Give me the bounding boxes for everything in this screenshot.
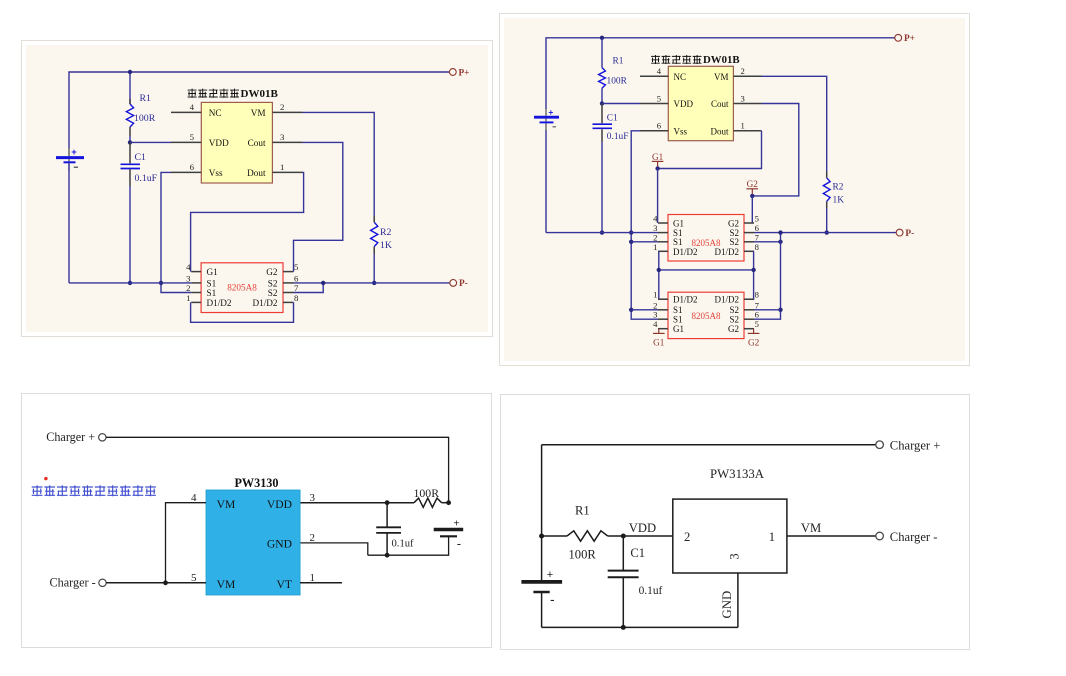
svg-text:P+: P+ (459, 68, 470, 78)
svg-text:VM: VM (251, 108, 266, 118)
svg-text:6: 6 (755, 310, 760, 320)
wire battery minus down to rail (68, 163, 70, 283)
pin 2 stub U5 (658, 309, 668, 311)
junction dot VDD node 2 (600, 101, 604, 105)
svg-text:3: 3 (280, 132, 285, 142)
wire G1 node to pin4a (657, 169, 659, 224)
wire pin2b link (631, 309, 658, 311)
transistor U6 PW3130 body (206, 490, 300, 595)
svg-text:0.1uf: 0.1uf (639, 585, 663, 597)
junction dot R2 rail panel2 (825, 230, 829, 234)
svg-text:3: 3 (186, 273, 191, 283)
svg-text:1: 1 (310, 572, 316, 584)
node anno red dot (44, 477, 47, 480)
junction dot C1 rail (128, 281, 132, 285)
svg-text:Vss: Vss (209, 168, 223, 178)
svg-text:1: 1 (741, 121, 745, 131)
junction dot pin7 rail (321, 281, 325, 285)
junction dot top rail 2 (600, 36, 604, 40)
svg-text:D1/D2: D1/D2 (715, 295, 740, 305)
wire battery B4 bottom (541, 592, 543, 627)
svg-text:S2: S2 (729, 315, 739, 325)
svg-text:S1: S1 (207, 288, 217, 298)
svg-text:P-: P- (905, 229, 914, 239)
wire VM loop (166, 503, 207, 583)
svg-text:G1: G1 (673, 218, 684, 228)
pin 6 stub U4 (744, 232, 754, 234)
svg-text:2: 2 (310, 532, 316, 544)
svg-text:8205A8: 8205A8 (227, 283, 257, 293)
pin 1 D1D2 stub (191, 301, 201, 303)
junction dot VDD node (128, 140, 132, 144)
svg-text:S1: S1 (673, 237, 683, 247)
svg-text:C1: C1 (630, 546, 645, 560)
svg-text:5: 5 (755, 319, 759, 329)
svg-text:Cout: Cout (711, 99, 729, 109)
svg-text:1: 1 (280, 162, 284, 172)
pin stubs of R1 (129, 99, 131, 136)
wire pin2a link (631, 241, 658, 243)
svg-text:0.1uf: 0.1uf (392, 538, 415, 549)
panel 3 frame (22, 394, 492, 648)
svg-text:DW01B: DW01B (703, 54, 740, 66)
svg-text:+: + (548, 107, 553, 117)
svg-text:C1: C1 (135, 152, 147, 163)
junction dot Vss rail crossing (159, 281, 163, 285)
wire Dout to G1 pin4 (191, 172, 304, 271)
svg-text:G2: G2 (266, 267, 278, 277)
svg-text:-: - (550, 591, 555, 607)
net label G1 upper (652, 152, 664, 167)
battery B1 (56, 147, 84, 171)
junction dot right vertical rail (778, 230, 782, 234)
svg-text:R2: R2 (380, 227, 392, 238)
panel 4 frame (501, 395, 970, 650)
label chinese annotation (32, 485, 156, 496)
junction dot C1 rail 2 (600, 230, 604, 234)
resistor R2 (371, 222, 378, 246)
svg-text:2: 2 (741, 66, 745, 76)
wire battery 2 down (545, 130, 547, 233)
battery B2 (534, 107, 559, 130)
svg-text:100R: 100R (607, 77, 628, 87)
svg-text:R1: R1 (613, 57, 624, 67)
svg-text:G2: G2 (748, 337, 760, 347)
svg-text:6: 6 (294, 273, 299, 283)
label U1 title chinese 无锡平芯微 (188, 89, 239, 98)
junction dot cap bottom (385, 553, 390, 558)
svg-text:1: 1 (653, 290, 657, 300)
transistor U7 PW3133A body (673, 499, 787, 573)
svg-text:G2: G2 (728, 324, 739, 334)
node Charger plus terminal 4 (876, 441, 884, 449)
svg-text:5: 5 (657, 93, 661, 103)
net label G2 lower (748, 329, 760, 348)
svg-text:VT: VT (277, 578, 292, 591)
svg-text:4: 4 (657, 66, 662, 76)
svg-text:100R: 100R (414, 486, 440, 500)
pin 2 VM stub 2 (733, 75, 761, 77)
svg-text:GND: GND (267, 537, 292, 550)
svg-text:2: 2 (684, 530, 690, 544)
wire VM out (787, 535, 876, 537)
svg-text:G1: G1 (207, 267, 219, 277)
svg-text:5: 5 (191, 572, 197, 584)
panel 1 schematic background (26, 45, 488, 332)
svg-text:1: 1 (186, 293, 190, 303)
svg-text:NC: NC (674, 72, 687, 82)
wire pin7b link (754, 309, 781, 311)
wire top rail 2 (546, 38, 895, 109)
wire B- rail (69, 282, 191, 284)
panel 1 frame (22, 41, 493, 337)
net label G1 lower (653, 329, 665, 348)
wire Vss vertical 2 (631, 131, 658, 319)
wire D1D2 bottom U (191, 302, 294, 322)
junction dot Vss pin2b (629, 308, 633, 312)
svg-text:S1: S1 (673, 315, 683, 325)
svg-text:G1: G1 (653, 337, 665, 347)
junction dot battery top (446, 500, 451, 505)
net label G2 upper (747, 179, 759, 194)
svg-text:1: 1 (653, 242, 657, 252)
junction dot C1 top 4 (621, 534, 626, 539)
svg-text:3: 3 (728, 553, 742, 559)
wire VDD row (300, 502, 414, 504)
pin 6 Vss stub (171, 171, 201, 173)
pin 7 stub U5 (744, 309, 754, 311)
node P- terminal 2 (896, 229, 903, 236)
junction dot Vss rail 2 (629, 230, 633, 234)
svg-text:100R: 100R (569, 548, 597, 562)
resistor R1 panel2 (599, 68, 606, 89)
svg-text:R2: R2 (833, 182, 844, 192)
svg-text:1K: 1K (833, 196, 845, 206)
pin 3 Cout stub (272, 141, 302, 143)
svg-text:G1: G1 (652, 152, 664, 162)
battery B3 (434, 519, 464, 552)
node P+ terminal 2 (895, 34, 902, 41)
svg-text:7: 7 (755, 232, 760, 242)
svg-text:+: + (547, 569, 553, 581)
pin 5 VDD stub (171, 141, 201, 143)
svg-text:VM: VM (217, 578, 236, 591)
pin 5 stub U4 (744, 222, 754, 224)
svg-text:1K: 1K (380, 240, 392, 251)
wire R1 to VDD node 2 (601, 88, 603, 103)
wire VDD node to chip (130, 141, 171, 143)
wire R1 to VDD node (129, 136, 131, 142)
svg-text:DW01B: DW01B (241, 88, 279, 100)
svg-text:8205A8: 8205A8 (692, 311, 721, 321)
wire VT stub (300, 582, 342, 584)
pin 7 stub U4 (744, 241, 754, 243)
pin 4 stub U4 (658, 222, 668, 224)
junction dot G1 node (655, 166, 659, 170)
svg-text:4: 4 (191, 492, 197, 504)
pin stubs of R2 (373, 216, 375, 254)
pin 3 S1 stub (191, 282, 201, 284)
pin 8 stub U4 (744, 250, 754, 252)
pin 5 stub U5 (744, 328, 754, 330)
transistor U5 8205A8 body (668, 292, 744, 338)
svg-text:3: 3 (310, 492, 316, 504)
svg-text:5: 5 (755, 214, 759, 224)
wire Cout down to G2 node (752, 104, 799, 196)
svg-text:Charger +: Charger + (890, 439, 941, 453)
pin 3 stub U4 (658, 232, 668, 234)
wire R1 to chip (608, 535, 673, 537)
wire rail to P- (294, 282, 450, 284)
panel 2 schematic background (504, 18, 965, 361)
wire R1 left link (542, 535, 567, 537)
svg-text:D1/D2: D1/D2 (673, 295, 698, 305)
wire pin7a link (754, 241, 781, 243)
pin 4 stub U5 (658, 328, 668, 330)
svg-text:100R: 100R (134, 113, 156, 124)
wire R1 branch 2 (601, 38, 603, 68)
svg-text:VM: VM (801, 521, 821, 535)
node Charger minus terminal 4 (876, 532, 884, 540)
wire 100R to battery node (442, 502, 449, 504)
svg-text:0.1uF: 0.1uF (135, 173, 158, 184)
wire VM to R2 (303, 112, 375, 216)
wire battery B3 bottom (368, 536, 449, 555)
wire bottom rail 4 (542, 626, 738, 628)
svg-text:S2: S2 (729, 237, 739, 247)
wire D1D2 cross link (659, 269, 754, 271)
svg-text:D1/D2: D1/D2 (715, 247, 740, 257)
resistor 100R panel3 (414, 498, 442, 507)
wire C1 to rail (129, 186, 131, 283)
svg-text:8: 8 (755, 242, 759, 252)
junction dot G2 node (750, 194, 754, 198)
svg-text:+: + (71, 147, 77, 158)
pin 8 stub U5 (744, 298, 754, 300)
svg-text:Dout: Dout (247, 168, 266, 178)
wire GND pin 3 (737, 573, 739, 627)
node P+ terminal (449, 69, 456, 76)
transistor U4 8205A8 body (668, 215, 744, 262)
svg-text:3: 3 (653, 310, 657, 320)
svg-text:S1: S1 (207, 278, 217, 288)
junction dot charger minus (163, 580, 168, 585)
wire Vss to S1 (161, 172, 191, 292)
svg-text:G2: G2 (728, 218, 739, 228)
wire GND jog (300, 543, 368, 555)
wire left vertical 4 (541, 445, 543, 580)
capacitor 0.1uf panel3 (376, 503, 401, 556)
pin 1 Dout stub 2 (733, 130, 761, 132)
panel 2 frame (500, 14, 970, 366)
svg-text:Charger +: Charger + (46, 430, 95, 444)
junction dot C1 bottom 4 (621, 625, 626, 630)
svg-text:S2: S2 (268, 278, 278, 288)
svg-text:Charger -: Charger - (890, 530, 938, 544)
pin 4 NC stub 2 (640, 75, 668, 77)
capacitor C1 panel2 (593, 104, 613, 143)
svg-text:4: 4 (190, 102, 195, 112)
pin 3 stub U5 (658, 318, 668, 320)
svg-text:6: 6 (657, 121, 662, 131)
svg-text:G1: G1 (673, 324, 684, 334)
svg-text:3: 3 (741, 93, 745, 103)
junction dot cross left (657, 268, 661, 272)
wire pin8a down (744, 251, 754, 299)
pin 4 G1 stub (191, 271, 201, 273)
svg-text:2: 2 (653, 232, 657, 242)
pin 5 G2 stub (283, 271, 294, 273)
svg-text:2: 2 (186, 283, 190, 293)
svg-text:GND: GND (720, 591, 734, 619)
wire rail left 2 (546, 232, 658, 234)
junction dot pin7a (778, 240, 782, 244)
junction dot R1 node 4 (539, 534, 544, 539)
svg-text:+: + (454, 519, 460, 530)
node Charger minus terminal (99, 579, 106, 586)
svg-text:-: - (457, 536, 461, 551)
junction dot top rail (128, 70, 132, 74)
junction dot cross right (751, 268, 755, 272)
svg-text:NC: NC (209, 108, 222, 118)
svg-text:G2: G2 (747, 179, 759, 189)
pin stubs R2 panel2 (826, 172, 828, 209)
svg-text:PW3133A: PW3133A (710, 467, 765, 481)
pin 4 NC stub (171, 111, 201, 113)
wire Dout down to G1 node (658, 131, 762, 169)
capacitor C1 panel4 (608, 536, 639, 627)
wire pin1a down (659, 251, 668, 299)
svg-text:7: 7 (294, 283, 299, 293)
svg-text:4: 4 (653, 214, 658, 224)
battery B4 (521, 569, 562, 607)
svg-text:D1/D2: D1/D2 (252, 298, 277, 308)
wire R2 to rail (373, 254, 375, 283)
svg-text:6: 6 (190, 162, 195, 172)
wire R2 to rail panel2 (826, 208, 828, 233)
resistor R1 panel4 (567, 531, 608, 541)
pin 6 stub U5 (744, 318, 754, 320)
svg-text:C1: C1 (607, 113, 618, 123)
svg-text:PW3130: PW3130 (234, 476, 278, 490)
wire Cout to G2 pin5 (294, 142, 343, 271)
wire S2 pin7 link (294, 283, 324, 293)
resistor R2 panel2 (823, 178, 830, 202)
transistor U2 8205A8 body (201, 263, 283, 313)
wire Charger plus rail 4 (542, 444, 876, 446)
svg-text:4: 4 (653, 319, 658, 329)
pin 6 S2 stub (283, 282, 294, 284)
wire top rail B+ to P+ (69, 72, 449, 148)
wire Charger minus to VM (106, 582, 206, 584)
pin 2 VM stub (272, 111, 302, 113)
op-amp U1 DW01B body (201, 102, 272, 183)
wire VM to R2 panel2 (762, 76, 827, 171)
wire right vertical (754, 233, 781, 320)
pin 1 stub U5 (658, 298, 668, 300)
pin 8 D1D2 stub (283, 301, 294, 303)
svg-text:8: 8 (755, 290, 759, 300)
wire rail right 2 (754, 232, 896, 234)
svg-text:D1/D2: D1/D2 (673, 247, 698, 257)
svg-text:2: 2 (280, 102, 284, 112)
pin 2 stub U4 (658, 241, 668, 243)
capacitor C1 (121, 142, 141, 186)
svg-text:S2: S2 (268, 288, 278, 298)
svg-text:5: 5 (190, 132, 195, 142)
pin 7 S2 stub (283, 292, 294, 294)
label U3 title chinese (651, 55, 701, 64)
node Charger plus terminal (99, 434, 106, 441)
junction dot cap top (385, 500, 390, 505)
svg-text:VDD: VDD (674, 99, 694, 109)
svg-text:VDD: VDD (629, 521, 656, 535)
svg-text:Dout: Dout (711, 126, 729, 136)
wire C1 to rail 2 (601, 142, 603, 233)
svg-text:4: 4 (186, 262, 191, 272)
wire VDD node to chip 2 (602, 103, 640, 105)
svg-text:5: 5 (294, 262, 299, 272)
resistor R1 (126, 104, 133, 127)
svg-text:0.1uF: 0.1uF (607, 132, 629, 142)
op-amp U3 DW01B body (668, 66, 733, 140)
pin 2 S1 stub (191, 292, 201, 294)
svg-text:1: 1 (769, 530, 775, 544)
svg-text:Vss: Vss (674, 126, 688, 136)
junction dot R2 rail (372, 281, 376, 285)
svg-text:VDD: VDD (267, 498, 292, 511)
pin 5 VDD stub 2 (640, 103, 668, 105)
svg-text:8: 8 (294, 293, 299, 303)
svg-text:R1: R1 (140, 93, 152, 104)
svg-text:VDD: VDD (209, 138, 229, 148)
wire R1 branch from top rail (129, 72, 131, 104)
junction dot Vss pin2a (629, 240, 633, 244)
pin 1 stub U4 (658, 250, 668, 252)
node P- terminal (450, 280, 457, 287)
pin 3 Cout stub 2 (733, 103, 761, 105)
svg-text:Charger -: Charger - (50, 576, 96, 590)
svg-text:P-: P- (459, 279, 468, 289)
svg-text:VM: VM (217, 498, 236, 511)
junction dot pin7b (778, 308, 782, 312)
wire G2 node to pin5a (751, 196, 753, 223)
svg-text:VM: VM (714, 72, 729, 82)
svg-text:Cout: Cout (248, 138, 266, 148)
wire Charger plus to battery (106, 437, 449, 502)
svg-text:P+: P+ (904, 34, 915, 44)
svg-text:R1: R1 (575, 504, 590, 518)
pin 6 Vss stub 2 (640, 130, 668, 132)
svg-text:D1/D2: D1/D2 (207, 298, 232, 308)
pin 1 Dout stub (272, 171, 302, 173)
